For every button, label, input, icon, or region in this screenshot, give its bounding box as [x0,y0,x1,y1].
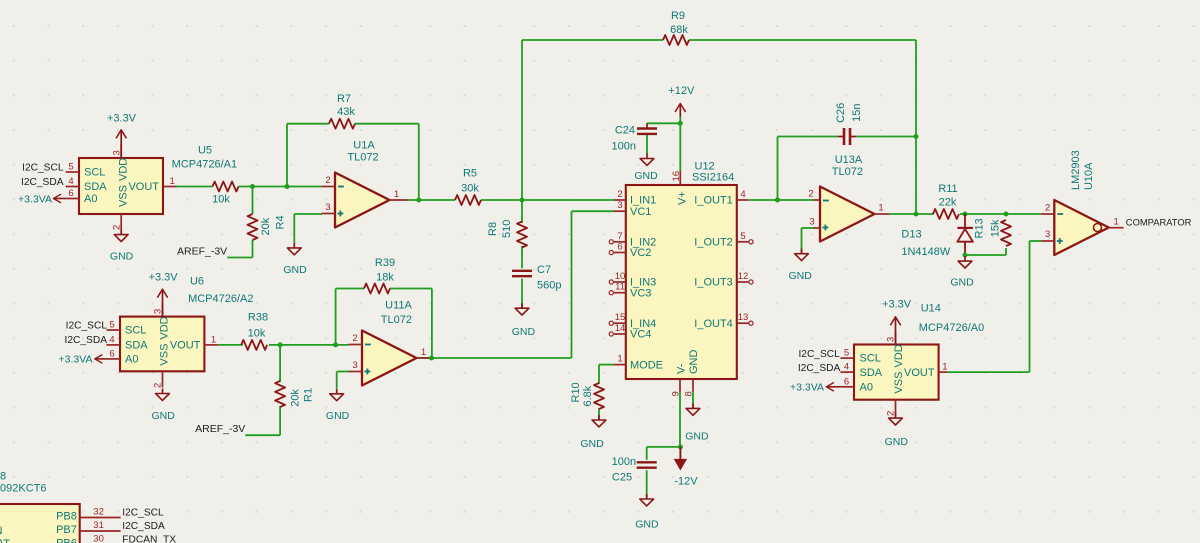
wire I_OUT1 to U13A pin 2 [749,199,814,201]
svg-text:C26: C26 [835,103,847,123]
junction U5 row R4 [250,184,255,189]
U5 pin 6 A0 [66,198,79,200]
U13A pin 2 stub [814,199,820,201]
resistor R10 6.8k [570,382,604,409]
svg-text:+3.3V: +3.3V [882,299,912,311]
svg-text:AT: AT [0,538,10,543]
MCU reference fragment [0,471,6,483]
svg-text:+3.3V: +3.3V [149,272,179,284]
U5 pin numbers [68,150,174,230]
svg-text:20k: 20k [260,217,272,235]
svg-text:10k: 10k [248,328,266,340]
wire R8 to C7 [521,246,523,268]
junction U13A output [914,212,919,217]
svg-text:A0: A0 [860,381,873,393]
wire R39 feedback top right [390,288,432,290]
+3.3V power symbol U6 [149,272,179,317]
U5 pin names [84,158,159,207]
resistor R13 15k [974,218,1012,246]
+12V power symbol [668,85,695,117]
U10A reference LM2903 [1070,150,1082,190]
svg-text:100n: 100n [612,141,636,153]
svg-text:R10: R10 [570,382,582,402]
svg-text:2: 2 [1045,203,1050,214]
U11A value TL072 [381,314,412,326]
svg-text:GND: GND [789,270,813,282]
svg-text:1: 1 [421,347,426,358]
svg-text:6: 6 [109,348,114,359]
wire R1 to AREF corner [279,406,281,435]
svg-text:A0: A0 [125,354,138,366]
svg-text:U14: U14 [921,302,941,314]
U5 pin 3 VDD stub [120,145,122,159]
svg-text:+3.3V: +3.3V [107,112,137,124]
svg-text:MCP4726/A1: MCP4726/A1 [172,158,237,170]
U13A pin numbers [808,189,883,228]
svg-text:8: 8 [684,391,695,396]
wire U13A out to R11 [889,213,934,215]
junction D13 bottom [963,253,968,258]
svg-text:VSS: VSS [159,344,171,366]
svg-text:2: 2 [617,189,622,200]
svg-text:VSS: VSS [117,185,129,207]
junction R13 top [1004,212,1009,217]
junction V- C25 [678,444,683,449]
wire feedback left vertical x=287 [286,124,288,187]
U1A pin 1 stub [390,199,408,201]
junction C26 R9 [914,134,919,139]
svg-text:9: 9 [671,391,682,396]
junction +12V C24 [678,121,683,126]
resistor R5 30k [455,167,481,205]
ground below R10 [580,415,606,450]
wire C7 to GND [521,279,523,309]
svg-text:2: 2 [325,175,330,186]
svg-text:GND: GND [688,350,700,375]
svg-text:3: 3 [1045,229,1050,240]
svg-text:SCL: SCL [84,167,105,179]
svg-text:U13A: U13A [835,154,863,166]
junction R5 output [520,198,525,203]
wire U11A pin 3 down [336,372,338,389]
svg-text:16: 16 [671,171,682,182]
svg-text:VSS: VSS [893,372,905,394]
wire GND pin 8 down [692,392,694,408]
svg-text:1: 1 [211,334,216,345]
U11A pin 1 stub [417,357,432,359]
wire +12V to U12 V+ [679,117,681,172]
svg-text:510: 510 [501,220,513,238]
svg-text:R39: R39 [375,257,395,269]
svg-text:U10A: U10A [1083,162,1095,190]
U14 pin 6 A0 [840,386,854,388]
svg-text:2: 2 [111,225,122,230]
U14 reference [921,302,941,314]
wire C24 top lead [646,123,648,128]
svg-text:LM2903: LM2903 [1070,150,1082,190]
wire R38 to U11A pin 2 [269,344,349,346]
svg-text:R11: R11 [938,183,957,195]
svg-text:5: 5 [109,320,114,331]
wire MODE left [599,364,614,366]
wire R4 to AREF corner [252,240,254,258]
svg-text:FDCAN_TX: FDCAN_TX [122,535,176,543]
svg-text:43k: 43k [337,106,355,118]
U11A reference [385,300,412,312]
U5 pin 1 VOUT [163,186,176,188]
svg-text:6: 6 [68,188,73,199]
junction U11A input [333,342,338,347]
wire feedback top left [287,123,329,125]
junction D13 [963,212,968,217]
svg-text:5: 5 [844,348,849,359]
U10A pin numbers [1045,203,1119,241]
U6 pin 1 VOUT [204,344,218,346]
wire R39 feedback right vertical [431,289,433,359]
wire feedback top right [355,123,419,125]
wire U5 VOUT to R3 10k [176,186,213,188]
svg-text:I_IN1: I_IN1 [630,195,656,207]
U5 pin 5 SCL [66,171,79,173]
U10A pin 2 stub [1041,213,1054,215]
svg-text:MODE: MODE [630,359,663,371]
U11A pin 2 stub [349,344,363,346]
U10A subreference U10A [1083,162,1095,190]
U6 pin 3 VDD stub [162,303,164,317]
U12 pin 9 V- stub [671,363,688,396]
svg-text:+12V: +12V [668,85,695,97]
U5 pin 2 VSS stub [120,214,122,230]
svg-text:32: 32 [93,507,104,518]
svg-text:I2C_SCL: I2C_SCL [22,162,64,173]
wire MODE down to R10 [598,365,600,384]
MCU left pin name fragments [0,525,10,543]
U6 pin numbers [109,309,216,388]
svg-text:R8: R8 [487,222,499,236]
svg-text:68k: 68k [670,24,688,36]
svg-text:GND: GND [512,326,536,338]
svg-text:SDA: SDA [860,367,883,379]
svg-text:PB7: PB7 [56,524,77,536]
U1A value TL072 [347,152,378,164]
ground below C25 [635,494,659,531]
junction R38 R1 [278,342,283,347]
wire C26 left vertical [777,137,779,201]
svg-text:5: 5 [740,231,745,242]
wire junction to R8 [521,200,523,223]
svg-text:+3.3VA: +3.3VA [18,193,52,205]
U11A pin numbers [352,333,426,371]
label COMPARATOR [1126,217,1192,228]
svg-text:TL072: TL072 [832,166,863,178]
wire R5 to U12 pin 2 [481,199,614,201]
U6 pin names [125,316,201,365]
U14 MCP4726/A0 body [854,345,939,400]
svg-text:U5: U5 [198,145,212,157]
-12V power symbol [674,447,698,488]
U14 pin numbers [844,337,948,416]
U12 SSI2164 body [626,185,737,379]
svg-text:GND: GND [110,250,134,262]
wire R9 right vertical lower [915,137,917,215]
svg-text:C7: C7 [537,264,551,276]
wire R13 bottom lead [1005,248,1007,255]
wire 10k to U1A pin 2 [239,186,323,188]
U12 pin 16 V+ stub [671,171,689,205]
U6 pin 5 SCL [107,329,121,331]
wire C25 row [647,446,680,448]
svg-text:C25: C25 [612,472,632,484]
wire U10A pin 3 vertical [1029,241,1031,372]
U1A pin 2 stub [322,186,335,188]
svg-text:GND: GND [283,264,307,276]
U14 pin 5 SCL [840,357,854,359]
wire R9 row right [689,39,916,41]
svg-text:10k: 10k [212,194,230,206]
U13A reference [835,154,863,166]
net label I2C_SDA U6 [65,335,108,346]
resistor R9 68k [663,10,689,45]
svg-text:SCL: SCL [125,325,146,337]
svg-text:I2C_SDA: I2C_SDA [65,335,108,346]
svg-text:VC2: VC2 [630,247,651,259]
wire R9 right vertical upper [915,40,917,137]
U13A pin 3 stub [814,227,820,229]
+3.3VA power symbol U14 [790,382,840,394]
svg-text:GND: GND [152,410,176,422]
svg-text:I2C_SCL: I2C_SCL [798,349,840,360]
svg-text:10: 10 [615,271,626,282]
U6 reference [190,275,204,287]
svg-text:31: 31 [93,520,104,531]
+3.3V power symbol U5 [107,112,137,158]
U12 value SSI2164 [692,172,734,184]
svg-text:AREF_-3V: AREF_-3V [177,245,227,257]
wire U13A pin 3 [802,227,815,229]
wire D13 bottom to R13 bottom [965,254,1006,256]
svg-text:I2C_SCL: I2C_SCL [66,321,108,332]
svg-text:VDD: VDD [117,158,129,181]
U10A pin 1 stub [1109,227,1124,229]
capacitor C24 100n [612,125,657,153]
svg-text:6.8k: 6.8k [582,385,594,406]
ground below U13A [789,249,813,283]
svg-text:14: 14 [615,323,626,334]
U5 reference U5 [198,145,212,157]
U1A reference [353,140,375,152]
svg-text:VOUT: VOUT [128,181,159,193]
svg-text:R5: R5 [463,167,477,179]
resistor R39 18k [364,257,395,294]
wire AREF_-3V label wire 2 [245,434,280,436]
wire VC1 vertical x=571.5 [571,211,573,358]
svg-text:2: 2 [808,189,813,200]
wire U11A pin 3 [337,371,349,373]
capacitor C25 100n [612,456,657,484]
capacitor C26 15n [835,103,863,145]
wire V- down [679,392,681,447]
svg-text:VOUT: VOUT [904,367,935,379]
wire C24 row [647,122,680,124]
svg-text:I_OUT3: I_OUT3 [694,277,733,289]
svg-text:15n: 15n [851,104,863,122]
svg-text:I_OUT1: I_OUT1 [694,195,733,207]
wire U1A pin 3 down [293,214,295,243]
svg-text:A0: A0 [84,193,97,205]
svg-text:U1A: U1A [353,140,375,152]
resistor R4 20k [248,214,287,240]
svg-text:2: 2 [153,383,164,388]
svg-text:VC3: VC3 [630,287,651,299]
svg-text:R4: R4 [274,215,286,229]
svg-text:V+: V+ [677,191,689,205]
svg-text:20k: 20k [290,389,302,407]
MCU value fragment 092KCT6 [0,483,46,495]
U5 value MCP4726/A1 [172,158,237,170]
wire R9 row left [522,39,663,41]
U6 MCP4726/A2 body [120,317,204,372]
ground below U14 [885,413,909,448]
wire R39 feedback top left [336,288,364,290]
wire feedback right vertical [418,124,420,200]
U13A value TL072 [832,166,863,178]
U1A pin numbers [325,175,399,213]
op-amp U11A TL072 [362,331,417,386]
svg-text:+3.3VA: +3.3VA [59,354,93,366]
U5 pin 4 SDA [66,186,79,188]
junction U5 row feedback [285,184,290,189]
svg-text:VOUT: VOUT [170,340,201,352]
svg-text:15k: 15k [990,219,1002,237]
resistor R7 43k [329,93,355,129]
svg-text:V-: V- [676,363,688,374]
resistor R38 10k [241,311,268,350]
svg-text:1: 1 [942,362,947,373]
svg-text:8: 8 [0,471,6,483]
svg-text:22k: 22k [939,197,957,209]
wire C26 row right [856,136,916,138]
wire U14 VOUT row [947,371,1029,373]
wire U13A pin 3 down [801,228,803,254]
svg-text:I2C_SDA: I2C_SDA [798,363,841,374]
svg-text:R1: R1 [302,388,314,402]
U5 MCP4726/A1 body [79,158,163,214]
svg-text:SSI2164: SSI2164 [692,172,734,184]
svg-text:7: 7 [617,231,622,242]
net label I2C_SCL U14 [798,349,840,360]
U12 right pins [694,189,753,330]
svg-text:C24: C24 [615,125,635,137]
svg-text:I2C_SCL: I2C_SCL [122,508,164,519]
wire U11A out to VC1 corner [417,357,572,359]
svg-text:SDA: SDA [84,181,107,193]
ground below U6 [152,389,176,423]
MCU U8 body [0,504,80,543]
U14 pin 2 VSS stub [895,400,897,416]
label AREF_-3V lower [195,423,245,435]
svg-text:GND: GND [885,436,909,448]
svg-text:U11A: U11A [385,300,412,312]
svg-text:COMPARATOR: COMPARATOR [1126,217,1192,228]
wire U6 VOUT to R38 [218,344,243,346]
wire junction to R4 [252,187,254,215]
svg-text:R38: R38 [248,311,268,323]
U14 pin 4 SDA [840,371,854,373]
svg-text:1: 1 [878,203,883,214]
svg-text:3: 3 [352,360,357,371]
wire R39 feedback left vertical [335,289,337,345]
svg-text:15: 15 [615,312,626,323]
ground below U12 pin 8 [685,403,709,442]
MCU pins PB8 PB7 PB6 [56,507,176,543]
ground below D13 [950,256,974,289]
svg-text:GND: GND [950,277,974,289]
svg-text:5: 5 [68,162,73,173]
resistor R11 22k [933,183,959,219]
ground below U5 [110,230,134,263]
svg-text:R9: R9 [671,10,685,22]
diode D13 1N4148W [901,214,973,258]
junction U13A input [775,198,780,203]
svg-text:U6: U6 [190,275,204,287]
U12 pin 8 GND stub [684,350,700,397]
U14 pin 3 VDD stub [895,331,897,345]
svg-text:D13: D13 [901,229,921,241]
wire U1A pin 3 [294,213,322,215]
svg-text:GND: GND [685,431,709,443]
wire R10 to GND [598,408,600,419]
wire VC1 horizontal [572,210,615,212]
svg-text:1: 1 [170,176,175,187]
wire U1A out to R5 [408,199,455,201]
svg-text:GND: GND [326,410,350,422]
U6 value MCP4726/A2 [188,293,253,305]
U13A pin 1 stub [875,213,890,215]
wire U10A pin 3 [1030,240,1042,242]
net label I2C_SCL U6 [66,321,108,332]
svg-text:SCL: SCL [860,353,881,365]
U11A pin 3 stub [349,371,363,373]
op-amp U10A LM2903 [1054,200,1109,255]
svg-text:092KCT6: 092KCT6 [0,483,46,495]
net label I2C_SDA U5 [21,177,64,188]
svg-text:TL072: TL072 [347,152,378,164]
wire C24 bottom lead [646,134,648,154]
svg-text:GND: GND [635,519,659,531]
svg-text:4: 4 [68,176,73,187]
svg-text:3: 3 [617,200,622,211]
svg-text:2: 2 [352,333,357,344]
+3.3V power symbol U14 [882,299,912,345]
ground below U1A [283,243,307,276]
svg-text:560p: 560p [537,280,561,292]
wire C25 top lead [646,447,648,460]
resistor R1 20k [275,381,314,407]
svg-text:12: 12 [738,271,749,282]
svg-text:3: 3 [809,217,814,228]
wire junction to R1 [279,345,281,382]
wire R9 left vertical x=522 [521,40,523,200]
+3.3VA power symbol U6 [59,354,107,366]
wire C26 row left [778,136,839,138]
wire AREF_-3V label wire [227,257,252,259]
svg-text:GND: GND [634,170,658,182]
junction U1A output [416,198,421,203]
ground below C24 [634,154,658,183]
svg-text:-12V: -12V [674,475,698,487]
svg-text:1: 1 [1114,217,1119,228]
svg-text:4: 4 [740,189,745,200]
